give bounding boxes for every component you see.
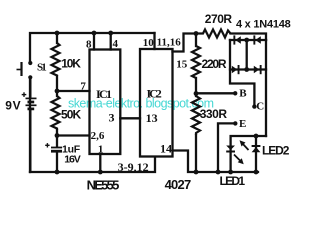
wire pin7 — [57, 76, 90, 91]
svg-text:4027: 4027 — [165, 177, 192, 192]
resistor R5 270R horizontal — [196, 30, 231, 38]
wire 330R bottom lead — [195, 135, 197, 172]
svg-text:4: 4 — [113, 38, 119, 50]
svg-text:16V: 16V — [64, 154, 81, 166]
wire bridge top row — [230, 39, 266, 41]
wire pin8 drop — [93, 33, 95, 50]
wire 10K column top — [56, 33, 58, 43]
node B — [233, 91, 237, 95]
node bridge bottom middle — [244, 67, 249, 72]
wire 220R bottom lead to node — [195, 78, 197, 96]
wire top right rail — [231, 34, 267, 41]
switch S1 — [17, 61, 47, 80]
svg-text:IC2: IC2 — [147, 86, 162, 100]
wire LED top horizontal — [231, 136, 266, 172]
svg-text:1: 1 — [98, 144, 104, 156]
svg-text:10K: 10K — [61, 57, 81, 71]
battery plus sign — [22, 92, 27, 97]
node E — [233, 121, 237, 125]
svg-text:10: 10 — [143, 37, 155, 49]
node 270R/220R — [194, 31, 199, 36]
node E rail — [216, 170, 221, 175]
resistor R2 50K — [52, 96, 60, 130]
node 220R/330R/B — [194, 91, 199, 96]
wire bridge left vertical to node C — [230, 40, 254, 106]
wire bridge middle vertical — [246, 40, 248, 70]
node top 10K — [55, 31, 60, 36]
resistor R3 220R — [192, 46, 200, 78]
diode D4 (bottom row right, pointing right) — [254, 65, 262, 74]
svg-text:11,16: 11,16 — [157, 37, 182, 49]
wire pin2,6 — [57, 130, 90, 136]
wire node B stub — [196, 92, 234, 94]
wire node E path — [218, 123, 234, 172]
svg-text:15: 15 — [176, 58, 188, 70]
svg-text:NE555: NE555 — [87, 177, 120, 192]
wire cap bottom lead — [56, 152, 58, 172]
wire pin10/11,16 drop — [153, 33, 155, 49]
wire left frame lower — [29, 78, 31, 173]
node cap rail — [55, 170, 60, 175]
svg-text:8: 8 — [86, 39, 92, 51]
svg-text:7: 7 — [80, 81, 86, 93]
node pin4 rail — [108, 31, 113, 36]
svg-text:270R: 270R — [205, 12, 233, 26]
LED arrow down-right — [234, 155, 244, 165]
resistor R4 330R — [192, 96, 200, 135]
capacitor plus sign — [45, 143, 49, 147]
svg-text:E: E — [239, 118, 246, 130]
svg-text:S1: S1 — [37, 62, 47, 74]
node 330R rail — [194, 170, 199, 175]
svg-text:330R: 330R — [200, 107, 228, 121]
svg-text:C: C — [256, 101, 264, 113]
node bridge top middle — [244, 38, 249, 43]
svg-text:13: 13 — [146, 111, 158, 125]
wire pin3 to pin13 — [120, 117, 140, 119]
svg-text:LED2: LED2 — [262, 143, 290, 157]
node C — [252, 104, 256, 108]
wire bridge right vertical — [265, 40, 267, 136]
diode D3 (bottom row left, pointing right) — [232, 65, 240, 74]
svg-text:IC1: IC1 — [96, 87, 112, 101]
svg-text:3-9,12: 3-9,12 — [118, 160, 149, 174]
wire pin15 path — [173, 34, 197, 52]
capacitor C1 1uF 16V — [51, 148, 62, 152]
wire pin4 drop — [110, 33, 112, 50]
wire top rail — [30, 33, 155, 63]
node 10K/50K/pin7 — [55, 89, 60, 94]
node 50K/cap/pin2,6 — [55, 133, 60, 138]
svg-text:50K: 50K — [61, 108, 82, 122]
IC U2 4027 flip-flop box IC2 — [140, 49, 173, 157]
node pin1 rail — [98, 170, 103, 175]
node pin8 rail — [92, 31, 97, 36]
resistor R1 10K — [52, 43, 60, 76]
IC U1 NE555 timer box IC1 — [90, 50, 121, 155]
svg-text:LED1: LED1 — [220, 174, 246, 188]
wire 50K top lead — [56, 91, 58, 96]
svg-text:14: 14 — [160, 141, 172, 155]
LED1 (pointing down) — [226, 146, 235, 153]
node LED2 rail — [254, 170, 259, 175]
battery B1 9V — [26, 77, 37, 172]
wire bridge bottom row — [230, 68, 266, 70]
wire pin1 drop — [99, 154, 101, 172]
LED arrow up-left — [240, 140, 249, 150]
svg-text:2,6: 2,6 — [91, 130, 105, 142]
svg-text:4 x 1N4148: 4 x 1N4148 — [236, 18, 291, 30]
wire cap top lead — [56, 136, 58, 147]
wire 220R top lead — [195, 34, 197, 47]
svg-text:3: 3 — [109, 111, 115, 125]
node LED1 rail — [228, 170, 233, 175]
svg-text:220R: 220R — [202, 57, 227, 71]
svg-text:B: B — [239, 87, 247, 99]
diode D1 (top row left, pointing left) — [233, 35, 240, 44]
wire bottom left rail — [30, 157, 155, 172]
LED2 (pointing up) — [252, 145, 261, 152]
wire LED2 column — [255, 136, 257, 172]
wire bottom right rail — [173, 151, 259, 173]
diode D2 (top row right, pointing left) — [253, 35, 260, 44]
node LED2 top — [254, 134, 259, 139]
svg-text:9V: 9V — [5, 99, 20, 113]
